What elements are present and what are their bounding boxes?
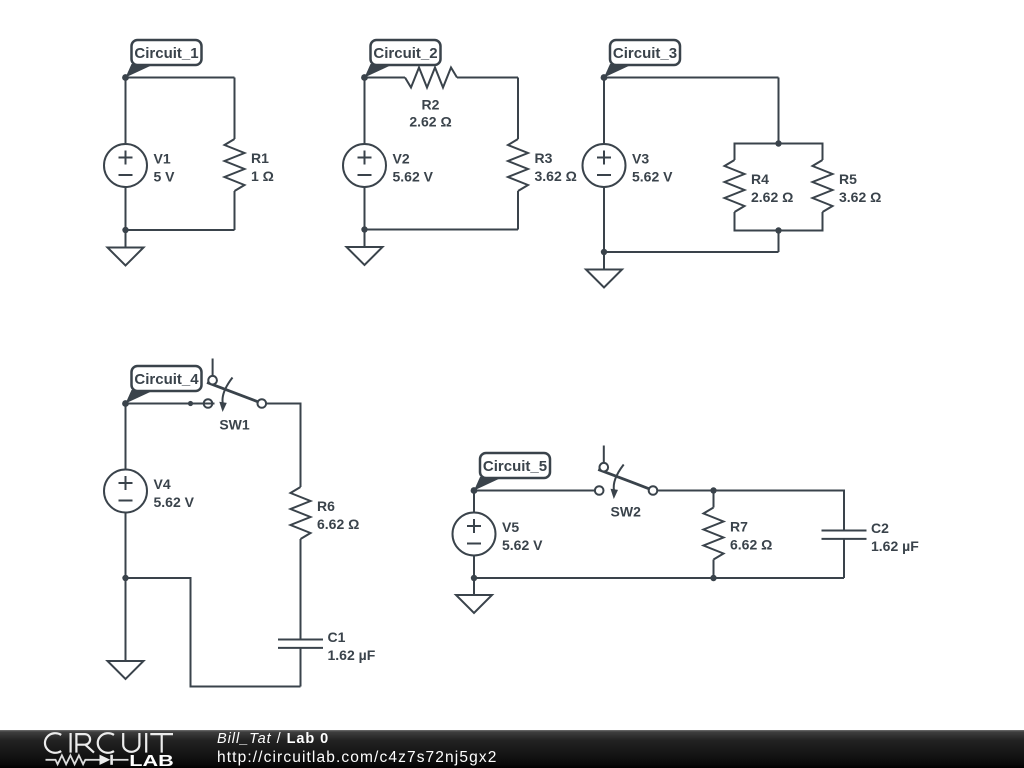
ground C3 xyxy=(586,252,622,288)
wire C1 left lower (V1- to bottom rail) xyxy=(125,187,127,230)
wire R5 bottom lead xyxy=(822,212,824,232)
voltage source V4 xyxy=(104,470,147,513)
svg-text:Circuit_4: Circuit_4 xyxy=(134,371,199,388)
wire C1 left upper (node to V1+) xyxy=(125,77,127,145)
wire C5 R7 top lead xyxy=(713,491,715,508)
logo wordmark CIRCUIT xyxy=(45,733,173,753)
svg-text:C2: C2 xyxy=(871,520,889,536)
node Circuit_3 callout xyxy=(601,40,680,81)
wire C4 return to V4 xyxy=(126,577,191,579)
label R2 value xyxy=(409,96,451,129)
node Circuit_2 callout xyxy=(361,40,440,81)
svg-text:R5: R5 xyxy=(839,171,857,187)
logo resistor zigzag xyxy=(46,755,90,764)
resistor R2 xyxy=(405,68,457,88)
label V4 value xyxy=(154,476,195,510)
wire C4 R6 to C1 xyxy=(300,539,302,640)
voltage source V1 xyxy=(104,144,147,187)
svg-text:R4: R4 xyxy=(751,171,769,187)
junction C3 ground node xyxy=(601,249,607,255)
switch SW1 xyxy=(200,359,266,413)
label R3 value xyxy=(535,150,577,184)
label C1 value xyxy=(328,629,376,663)
svg-text:5.62 V: 5.62 V xyxy=(393,169,434,185)
svg-text:6.62 Ω: 6.62 Ω xyxy=(730,537,772,553)
wire C3 parallel to bottom rail xyxy=(778,231,780,253)
label R4 value xyxy=(751,171,793,205)
svg-text:LAB: LAB xyxy=(129,753,174,768)
wire R4 bottom lead xyxy=(734,212,736,232)
svg-text:V5: V5 xyxy=(502,519,519,535)
label V5 value xyxy=(502,519,543,553)
wire C4 R6 branch drop xyxy=(300,403,302,488)
label V2 value xyxy=(393,151,434,185)
svg-text:5.62 V: 5.62 V xyxy=(502,537,543,553)
wire C5 left lower (V5- to ground) xyxy=(473,556,475,579)
wire C5 R7 bottom lead xyxy=(713,560,715,579)
svg-text:Circuit_5: Circuit_5 xyxy=(483,458,547,475)
wire C4 left upper (node to V4+) xyxy=(125,403,127,470)
resistor R5 xyxy=(813,160,833,212)
wire C3 left upper xyxy=(603,77,605,145)
resistor R1 xyxy=(225,139,245,191)
wire C3 parallel bottom bus xyxy=(735,230,823,232)
wire C5 left upper (node to V5+) xyxy=(473,490,475,513)
ground C1 xyxy=(108,230,144,266)
voltage source V5 xyxy=(453,513,496,556)
junction C3 parallel top xyxy=(775,140,781,146)
label R5 value xyxy=(839,171,881,205)
wire C1 right upper xyxy=(234,78,236,140)
wire C3 right drop xyxy=(778,78,780,144)
svg-text:1.62 µF: 1.62 µF xyxy=(871,538,919,554)
wire C5 top rail (node to SW2) xyxy=(474,490,595,492)
svg-text:6.62 Ω: 6.62 Ω xyxy=(317,516,359,532)
junction C3 parallel bottom xyxy=(775,227,781,233)
switch SW2 xyxy=(595,446,657,500)
svg-text:SW1: SW1 xyxy=(219,417,250,433)
label R7 value xyxy=(730,519,772,553)
svg-text:V1: V1 xyxy=(154,151,171,167)
capacitor C1 xyxy=(278,640,323,648)
junction C5 ground node xyxy=(471,575,477,581)
label V1 value xyxy=(154,151,176,185)
wire C2 bottom rail xyxy=(365,229,519,231)
label V3 value xyxy=(632,151,673,185)
svg-text:5.62 V: 5.62 V xyxy=(632,169,673,185)
CircuitLab logo xyxy=(0,730,210,768)
svg-text:Circuit_3: Circuit_3 xyxy=(613,45,677,62)
node Circuit_5 callout xyxy=(471,453,550,494)
junction C5 R7 bottom xyxy=(710,575,716,581)
ground C5 xyxy=(456,578,492,613)
wire C3 parallel top bus xyxy=(735,143,823,145)
svg-text:V3: V3 xyxy=(632,151,649,167)
wire C4 left lower (V4- to ground) xyxy=(125,513,127,579)
wire C4 return riser xyxy=(190,577,192,688)
logo diode xyxy=(90,755,129,765)
ground C4 xyxy=(108,578,144,679)
wire C2 left upper xyxy=(364,77,366,145)
wire C4 top rail (node to SW1) xyxy=(126,403,215,405)
voltage source V3 xyxy=(583,144,626,187)
svg-text:R6: R6 xyxy=(317,498,335,514)
svg-text:1.62 µF: 1.62 µF xyxy=(328,647,376,663)
wire R4 top lead xyxy=(734,143,736,161)
wire C4 SW1 to R6 branch xyxy=(266,403,300,405)
junction C4 switch feed xyxy=(188,401,193,406)
resistor R3 xyxy=(508,139,528,191)
svg-text:3.62 Ω: 3.62 Ω xyxy=(839,189,881,205)
wire C2 top rail left xyxy=(365,77,406,79)
node Circuit_1 callout xyxy=(122,40,201,81)
svg-text:Circuit_2: Circuit_2 xyxy=(373,45,437,62)
svg-text:V2: V2 xyxy=(393,151,410,167)
wire C3 bottom rail xyxy=(604,251,779,253)
resistor R7 xyxy=(704,508,724,560)
label C2 value xyxy=(871,520,919,554)
resistor R4 xyxy=(725,160,745,212)
voltage source V2 xyxy=(343,144,386,187)
svg-text:R7: R7 xyxy=(730,519,748,535)
svg-text:5 V: 5 V xyxy=(154,169,176,185)
footer bar xyxy=(0,730,1024,768)
svg-text:R2: R2 xyxy=(422,96,440,112)
wire C1 right lower xyxy=(234,191,236,230)
label R6 value xyxy=(317,498,359,532)
ground C2 xyxy=(347,230,383,266)
svg-text:2.62 Ω: 2.62 Ω xyxy=(751,189,793,205)
svg-text:V4: V4 xyxy=(154,476,171,492)
wire C3 top rail xyxy=(604,77,779,79)
svg-text:1 Ω: 1 Ω xyxy=(251,168,274,184)
svg-text:R3: R3 xyxy=(535,150,553,166)
wire C5 SW2 to C2 corner xyxy=(658,490,844,492)
svg-text:C1: C1 xyxy=(328,629,346,645)
junction C1 ground node xyxy=(122,227,128,233)
svg-text:2.62 Ω: 2.62 Ω xyxy=(409,113,451,129)
capacitor C2 xyxy=(822,531,867,539)
junction C5 R7 top xyxy=(710,487,716,493)
wire C3 left lower xyxy=(603,187,605,252)
svg-text:Circuit_1: Circuit_1 xyxy=(134,45,198,62)
wire C4 bottom rail xyxy=(191,686,301,688)
wire C2 top rail right xyxy=(457,77,518,79)
wire C5 C2 drop xyxy=(843,490,845,531)
label R1 value xyxy=(251,150,274,184)
wire C2 left lower xyxy=(364,187,366,230)
svg-text:3.62 Ω: 3.62 Ω xyxy=(535,168,577,184)
wire R5 top lead xyxy=(822,143,824,161)
resistor R6 xyxy=(291,487,311,539)
wire C2 right lower xyxy=(517,191,519,230)
wire C1 bottom rail xyxy=(126,229,235,231)
wire C2 right upper xyxy=(517,78,519,140)
wire C1 top rail xyxy=(126,77,235,79)
wire C5 C2 bottom lead xyxy=(843,539,845,578)
junction C4 ground node xyxy=(122,575,128,581)
footer title text xyxy=(217,731,497,767)
node Circuit_4 callout xyxy=(122,366,201,407)
junction C2 ground node xyxy=(361,226,367,232)
wire C4 C1 bottom lead xyxy=(300,648,302,687)
svg-text:R1: R1 xyxy=(251,150,269,166)
svg-text:SW2: SW2 xyxy=(611,504,642,520)
svg-text:5.62 V: 5.62 V xyxy=(154,494,195,510)
wire C5 bottom rail xyxy=(474,577,844,579)
